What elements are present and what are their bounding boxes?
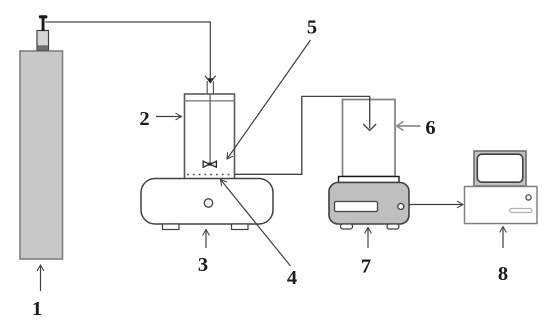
svg-text:4: 4 — [287, 267, 297, 289]
valve body dark collar — [37, 45, 48, 50]
stirrer knob — [204, 199, 212, 207]
collection vessel 6 — [343, 100, 396, 177]
stirrer left foot — [163, 224, 180, 230]
vessel 6 base collar — [339, 177, 400, 183]
stirrer/balance 7 — [329, 183, 409, 225]
label 3 arrow — [205, 230, 207, 249]
signal line 7 to computer 8 — [409, 204, 463, 206]
transfer line vessel2 to vessel6 — [235, 96, 370, 174]
floppy slot — [510, 209, 533, 213]
vessel lid line — [185, 100, 235, 102]
button of 7 — [398, 204, 404, 210]
svg-text:1: 1 — [32, 298, 42, 320]
fritted disc (dotted line) 4 target — [187, 174, 233, 176]
svg-text:7: 7 — [361, 256, 371, 278]
computer base unit — [465, 187, 538, 224]
reactor vessel 2 — [185, 94, 235, 180]
svg-text:2: 2 — [139, 108, 149, 130]
label 8 arrow — [502, 227, 504, 249]
svg-text:6: 6 — [425, 117, 435, 139]
transfer line arrowhead down — [363, 124, 376, 131]
gas line arrowhead into inlet — [205, 76, 216, 83]
computer monitor bezel — [474, 151, 526, 186]
valve stem — [42, 18, 45, 32]
sparger tube — [209, 95, 211, 164]
cylinder valve body — [37, 31, 49, 51]
power light — [526, 195, 531, 200]
gas supply line to reactor — [46, 22, 211, 82]
left foot of 7 — [341, 224, 353, 229]
label 4 leader line — [221, 180, 291, 267]
right foot of 7 — [387, 224, 399, 229]
svg-text:5: 5 — [307, 17, 317, 39]
magnetic stirrer 3 — [141, 179, 273, 225]
label 1 arrow — [40, 265, 42, 291]
sparger impeller (bowtie) 5 target — [203, 161, 209, 167]
inlet tube — [206, 81, 208, 94]
label 2 arrow — [156, 116, 182, 118]
stirrer right foot — [232, 224, 249, 230]
label 7 arrow — [367, 228, 369, 249]
label 6 arrow (gray) — [397, 125, 421, 127]
svg-text:3: 3 — [198, 254, 208, 276]
svg-text:8: 8 — [498, 263, 508, 285]
gas cylinder 1 — [20, 51, 63, 259]
valve handwheel cap — [39, 15, 48, 18]
label 5 leader line — [227, 40, 311, 159]
display window of 7 — [335, 202, 378, 212]
monitor screen — [477, 154, 523, 182]
